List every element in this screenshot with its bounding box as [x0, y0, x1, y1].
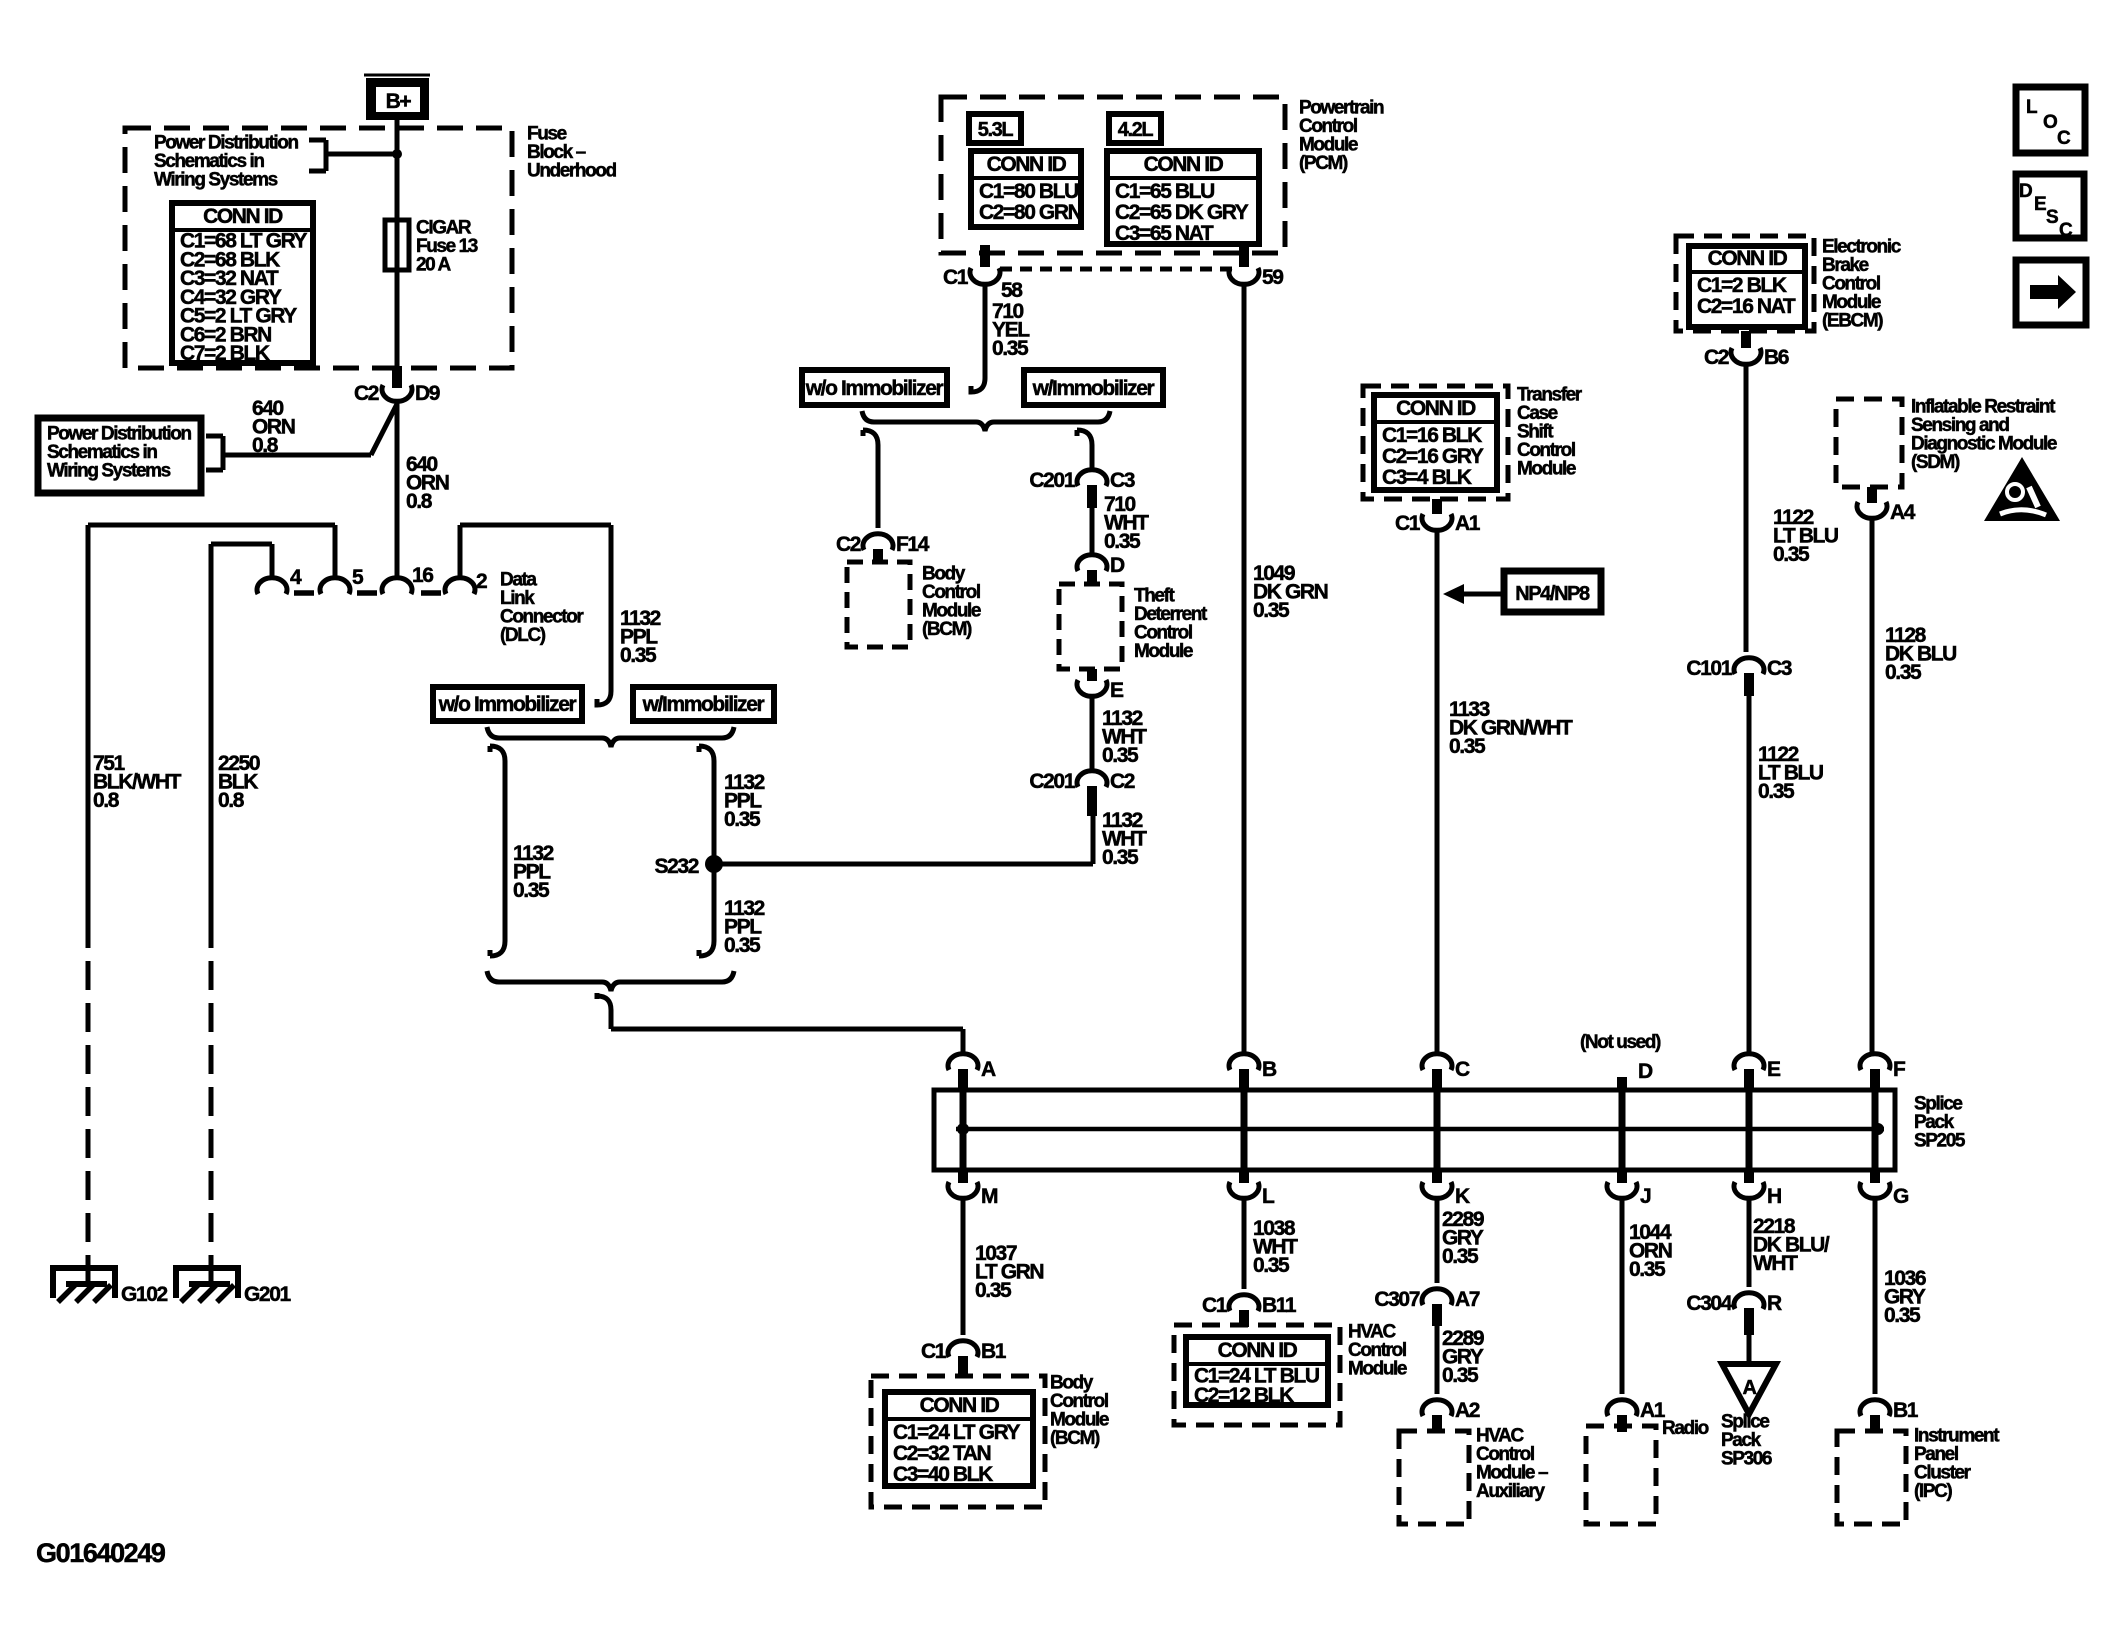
- splice S232: [655, 855, 723, 878]
- svg-text:16: 16: [412, 564, 433, 587]
- svg-text:C2: C2: [836, 533, 861, 556]
- label 1132 PPL 0.35 (right upper): [724, 771, 765, 831]
- label 1122 LT BLU 0.35 (upper): [1773, 506, 1838, 566]
- wire 640 ORN from D9 to DLC pin 16: [395, 400, 400, 579]
- svg-text:0.35: 0.35: [1102, 744, 1139, 767]
- label EBCM: [1822, 237, 1902, 332]
- svg-text:4.2L: 4.2L: [1118, 119, 1154, 141]
- svg-text:C2=80 GRN: C2=80 GRN: [979, 201, 1082, 224]
- label 59: [1262, 266, 1283, 289]
- svg-text:C: C: [1455, 1058, 1470, 1081]
- svg-text:C2: C2: [1704, 346, 1729, 369]
- wire 2289 GRY lower: [1435, 1326, 1440, 1394]
- label 1036 GRY 0.35: [1884, 1267, 1926, 1327]
- branch to BCM: [863, 430, 878, 528]
- svg-text:Wiring Systems: Wiring Systems: [154, 170, 278, 191]
- DLC pin numbers: [290, 564, 487, 593]
- label L (splice): [1262, 1185, 1275, 1208]
- label 2250 BLK 0.8: [218, 752, 260, 812]
- wire 2289 GRY upper: [1435, 1197, 1440, 1283]
- label M (splice): [981, 1185, 998, 1208]
- splice pack SP205 box: [934, 1090, 1895, 1170]
- svg-text:(BCM): (BCM): [1050, 1428, 1100, 1449]
- label A1: [1640, 1399, 1666, 1422]
- branch to theft deterrent: [1077, 430, 1092, 471]
- svg-text:B: B: [1262, 1058, 1277, 1081]
- label B (splice): [1262, 1058, 1277, 1081]
- connector B1 IPC: [1860, 1400, 1890, 1432]
- svg-text:D: D: [2019, 181, 2032, 202]
- svg-text:CONN ID: CONN ID: [1218, 1339, 1298, 1362]
- wire splice feed to SP205 A: [597, 993, 963, 1055]
- wire 1133 DK GRN/WHT to SP205 C: [1435, 529, 1440, 1055]
- svg-text:CONN ID: CONN ID: [1144, 153, 1224, 176]
- splice connector H: [1734, 1168, 1764, 1198]
- connector C307 A7: [1422, 1289, 1452, 1326]
- svg-text:0.35: 0.35: [1104, 530, 1141, 553]
- ground G201: [176, 1260, 291, 1306]
- label HVAC control module: [1348, 1322, 1407, 1380]
- connector C201 C3: [1077, 470, 1107, 508]
- label F (splice): [1893, 1058, 1906, 1081]
- legend box LOC: [2016, 87, 2085, 153]
- svg-text:C1: C1: [1202, 1294, 1228, 1317]
- svg-text:0.35: 0.35: [1449, 735, 1486, 758]
- svg-text:Wiring Systems: Wiring Systems: [47, 461, 171, 482]
- wire 1037 LT GRN: [961, 1197, 966, 1335]
- label PCM: [1299, 98, 1384, 175]
- svg-text:E: E: [2034, 194, 2046, 215]
- label SDM: [1911, 397, 2057, 474]
- powertrain control module dashed box: [941, 97, 1285, 253]
- HVAC control module dashed box: [1174, 1325, 1340, 1425]
- brace (PCM split): [862, 411, 1110, 431]
- label Data Link Connector DLC: [500, 570, 584, 647]
- label radio: [1662, 1418, 1709, 1439]
- splice connector L: [1229, 1168, 1259, 1198]
- svg-text:C2=16 NAT: C2=16 NAT: [1697, 295, 1796, 318]
- label CIGAR Fuse 13 20 A: [416, 218, 478, 276]
- labels C2 F14: [836, 533, 930, 556]
- svg-text:K: K: [1455, 1185, 1470, 1208]
- svg-text:D9: D9: [415, 382, 440, 405]
- svg-text:(SDM): (SDM): [1911, 452, 1960, 473]
- w/o Immobilizer box (DLC): [433, 687, 582, 721]
- svg-text:B1: B1: [1893, 1399, 1919, 1422]
- power distribution schematics box: [38, 418, 201, 493]
- svg-text:C1=24 LT GRY: C1=24 LT GRY: [893, 1421, 1021, 1444]
- svg-text:20 A: 20 A: [416, 255, 452, 276]
- wire 1132 WHT upper: [1090, 695, 1095, 772]
- svg-text:Module: Module: [1134, 641, 1193, 662]
- wire 710 WHT: [1090, 508, 1095, 556]
- wire DLC pin 5 to ground run 751: [88, 525, 335, 579]
- connector C2 B6: [1731, 331, 1761, 364]
- w/Immobilizer box (DLC): [633, 687, 774, 721]
- splice connector A: [948, 1054, 978, 1168]
- svg-text:WHT: WHT: [1753, 1252, 1798, 1275]
- svg-text:M: M: [981, 1185, 998, 1208]
- splice connector K: [1422, 1168, 1452, 1198]
- svg-text:C2=16 GRY: C2=16 GRY: [1382, 445, 1484, 468]
- DLC connector dashes: [294, 590, 441, 596]
- label H (splice): [1767, 1185, 1781, 1208]
- svg-text:0.35: 0.35: [975, 1279, 1012, 1302]
- brace bottom (DLC split): [487, 971, 734, 991]
- svg-text:5: 5: [352, 566, 364, 589]
- svg-text:B+: B+: [386, 90, 412, 113]
- svg-text:C101: C101: [1686, 657, 1732, 680]
- svg-text:0.35: 0.35: [1885, 661, 1922, 684]
- svg-text:SP205: SP205: [1914, 1131, 1966, 1152]
- wire end hook above brace (DLC): [597, 691, 611, 705]
- label 1049 DK GRN 0.35: [1253, 562, 1328, 622]
- figure number G01640249: [36, 1538, 166, 1568]
- arrow NP4/NP8: [1443, 584, 1504, 604]
- svg-text:C1=16 BLK: C1=16 BLK: [1382, 424, 1482, 447]
- label J (splice): [1640, 1185, 1651, 1208]
- svg-text:CONN ID: CONN ID: [920, 1394, 1000, 1417]
- svg-text:A: A: [981, 1058, 996, 1081]
- svg-text:C2: C2: [1110, 770, 1135, 793]
- svg-text:0.8: 0.8: [93, 789, 120, 812]
- body control module dashed box (top): [847, 562, 910, 647]
- svg-text:CONN ID: CONN ID: [1708, 247, 1788, 270]
- svg-text:G102: G102: [121, 1283, 167, 1306]
- tag 4.2L: [1109, 114, 1161, 143]
- label 1038 WHT 0.35: [1253, 1217, 1298, 1277]
- radio dashed box: [1586, 1426, 1656, 1524]
- w/Immobilizer box (PCM): [1024, 370, 1163, 405]
- CONN ID table PCM 4.2L: [1107, 151, 1259, 245]
- svg-text:J: J: [1640, 1185, 1651, 1208]
- CONN ID table BCM: [885, 1392, 1033, 1486]
- svg-text:(BCM): (BCM): [922, 619, 972, 640]
- label 2289 GRY 0.35 (lower): [1442, 1327, 1484, 1387]
- labels C1 B1: [921, 1340, 1007, 1363]
- svg-text:0.35: 0.35: [1442, 1245, 1479, 1268]
- svg-text:C307: C307: [1374, 1288, 1419, 1311]
- svg-text:2: 2: [476, 570, 487, 593]
- svg-text:G01640249: G01640249: [36, 1538, 166, 1568]
- label 710 YEL 0.35: [992, 300, 1030, 360]
- wire 1044 ORN: [1620, 1197, 1625, 1394]
- svg-text:C: C: [2057, 128, 2071, 149]
- svg-text:A7: A7: [1455, 1288, 1480, 1311]
- connector PCM C1 pin 58: [970, 245, 1000, 284]
- label splice pack SP306: [1721, 1412, 1772, 1470]
- svg-text:L: L: [2026, 97, 2038, 118]
- svg-text:0.35: 0.35: [724, 808, 761, 831]
- label K (splice): [1455, 1185, 1470, 1208]
- bracket wire to B+ feed: [309, 140, 394, 171]
- svg-text:0.8: 0.8: [406, 490, 433, 513]
- svg-text:w/o Immobilizer: w/o Immobilizer: [438, 693, 577, 716]
- wire 640 ORN branch diagonal: [223, 404, 397, 455]
- svg-text:A1: A1: [1455, 512, 1481, 535]
- label splice pack SP205: [1914, 1094, 1966, 1152]
- svg-text:0.35: 0.35: [1102, 846, 1139, 869]
- svg-text:Auxiliary: Auxiliary: [1476, 1481, 1545, 1502]
- bracket power distribution box: [206, 436, 223, 470]
- splice pack SP306 triangle: [1722, 1364, 1776, 1414]
- svg-text:(DLC): (DLC): [500, 625, 546, 646]
- svg-text:0.35: 0.35: [513, 879, 550, 902]
- labels C201 C3: [1029, 469, 1134, 492]
- svg-text:C1=2 BLK: C1=2 BLK: [1697, 274, 1787, 297]
- svg-text:F: F: [1893, 1058, 1906, 1081]
- connector PCM pin 59: [1229, 245, 1259, 284]
- svg-text:0.35: 0.35: [992, 337, 1029, 360]
- svg-text:C2: C2: [354, 382, 379, 405]
- splice connector C: [1422, 1054, 1452, 1168]
- svg-text:C3: C3: [1110, 469, 1135, 492]
- splice connector F: [1860, 1054, 1890, 1168]
- svg-text:C: C: [2059, 220, 2073, 241]
- svg-text:0.35: 0.35: [1773, 543, 1810, 566]
- labels C1 B11: [1202, 1294, 1297, 1317]
- svg-text:CONN ID: CONN ID: [1396, 397, 1476, 420]
- wire 1128 DK BLU to SP205 F: [1870, 517, 1875, 1055]
- connector C201 C2: [1077, 771, 1107, 816]
- svg-text:C1=65 BLU: C1=65 BLU: [1115, 180, 1214, 203]
- label HVAC control module auxiliary: [1476, 1426, 1548, 1503]
- svg-text:C2=32 TAN: C2=32 TAN: [893, 1442, 991, 1465]
- svg-text:A4: A4: [1890, 501, 1916, 524]
- svg-text:0.8: 0.8: [218, 789, 245, 812]
- svg-text:C3=40 BLK: C3=40 BLK: [893, 1463, 993, 1486]
- transfer case shift control module dashed box: [1363, 386, 1508, 499]
- svg-text:Radio: Radio: [1662, 1418, 1709, 1439]
- svg-text:R: R: [1767, 1292, 1782, 1315]
- svg-text:C1: C1: [943, 266, 969, 289]
- label 1128 DK BLU 0.35: [1885, 624, 1956, 684]
- svg-text:NP4/NP8: NP4/NP8: [1515, 583, 1590, 605]
- splice connector G: [1860, 1168, 1890, 1198]
- w/o Immobilizer box (PCM): [802, 370, 947, 405]
- connector C1 B11 HVAC: [1229, 1295, 1259, 1327]
- labels C307 A7: [1374, 1288, 1479, 1311]
- tag 5.3L: [969, 114, 1021, 143]
- labels C1 A1: [1395, 512, 1481, 535]
- labels C2 B6: [1704, 346, 1789, 369]
- svg-text:CONN ID: CONN ID: [203, 205, 283, 228]
- svg-text:G: G: [1893, 1185, 1909, 1208]
- airbag warning triangle: [1984, 457, 2060, 521]
- svg-text:B11: B11: [1262, 1294, 1297, 1317]
- label D: [1110, 554, 1125, 577]
- svg-text:D: D: [1110, 554, 1125, 577]
- label 2218 DK BLU/WHT: [1753, 1215, 1830, 1275]
- svg-text:C2=12 BLK: C2=12 BLK: [1194, 1384, 1294, 1407]
- wire 751 BLK/WHT to G102: [86, 525, 91, 1268]
- dashed connector line C1: [1000, 267, 1235, 272]
- label G (splice): [1893, 1185, 1909, 1208]
- connector A1 radio: [1607, 1400, 1637, 1432]
- svg-text:C304: C304: [1686, 1292, 1732, 1315]
- svg-text:H: H: [1767, 1185, 1781, 1208]
- svg-text:C3: C3: [1767, 657, 1792, 680]
- svg-text:C201: C201: [1029, 469, 1075, 492]
- battery feed B+: [364, 75, 430, 120]
- svg-text:w/o Immobilizer: w/o Immobilizer: [805, 377, 944, 400]
- labels C201 C2: [1029, 770, 1134, 793]
- splice pack bus bar: [956, 1123, 1884, 1135]
- wire DLC pin 2 1132 PPL: [460, 525, 611, 691]
- svg-text:59: 59: [1262, 266, 1283, 289]
- label A4: [1890, 501, 1916, 524]
- branch w/o immobilizer 1132 PPL: [490, 746, 505, 956]
- splice connector E: [1734, 1054, 1764, 1168]
- label 640 ORN 0.8 (lower): [406, 453, 449, 513]
- connector C1 B1 BCM: [948, 1341, 978, 1378]
- label E (splice): [1767, 1058, 1781, 1081]
- svg-text:0.35: 0.35: [1629, 1258, 1666, 1281]
- svg-text:0.35: 0.35: [1884, 1304, 1921, 1327]
- svg-text:C3=65 NAT: C3=65 NAT: [1115, 222, 1214, 245]
- svg-text:C2=65 DK GRY: C2=65 DK GRY: [1115, 201, 1249, 224]
- wire 1049 DK GRN pin 59 to SP205 B: [1242, 283, 1247, 1055]
- svg-text:w/Immobilizer: w/Immobilizer: [642, 693, 765, 716]
- fuse CIGAR Fuse 13 20 A: [385, 220, 409, 270]
- label 1132 PPL 0.35 (pin2 drop): [620, 607, 661, 667]
- svg-text:SP306: SP306: [1721, 1449, 1772, 1470]
- SDM dashed box: [1836, 399, 1902, 487]
- svg-text:S232: S232: [655, 855, 699, 878]
- label 1133 DK GRN/WHT 0.35: [1449, 698, 1573, 758]
- svg-text:0.35: 0.35: [1253, 599, 1290, 622]
- label 1132 WHT 0.35 (upper): [1102, 707, 1147, 767]
- svg-text:0.35: 0.35: [1758, 780, 1795, 803]
- label 710 WHT 0.35: [1104, 493, 1149, 553]
- label 751 BLK/WHT 0.8: [93, 752, 182, 812]
- svg-text:E: E: [1110, 679, 1124, 702]
- label (Not used): [1580, 1032, 1661, 1053]
- connector C2 F14: [863, 534, 893, 564]
- wire S232 to C201 C2: [714, 816, 1093, 864]
- labels C1 58: [943, 266, 1023, 302]
- svg-text:Module: Module: [1348, 1359, 1407, 1380]
- label BCM (bottom): [1050, 1373, 1109, 1450]
- svg-text:S: S: [2046, 207, 2058, 228]
- splice connector B: [1229, 1054, 1259, 1168]
- svg-text:G201: G201: [244, 1283, 291, 1306]
- junction on B+ feed: [392, 149, 402, 159]
- label 1132 PPL 0.35 (right lower): [724, 897, 765, 957]
- label BCM (top): [922, 564, 981, 641]
- wire 1038 WHT: [1242, 1197, 1247, 1289]
- svg-text:B1: B1: [981, 1340, 1007, 1363]
- svg-text:C1: C1: [1395, 512, 1421, 535]
- labels C101 C3: [1686, 657, 1791, 680]
- wire 2218 DK BLU/WHT: [1747, 1197, 1752, 1287]
- svg-text:C7=2 BLK: C7=2 BLK: [180, 342, 270, 365]
- svg-text:C1=80 BLU: C1=80 BLU: [979, 180, 1078, 203]
- CONN ID table HVAC: [1186, 1337, 1328, 1407]
- label theft deterrent control module: [1134, 586, 1208, 663]
- branch w/immobilizer 1132 PPL: [699, 746, 714, 956]
- brace top (DLC split): [487, 727, 734, 747]
- connector C2 D9: [382, 366, 412, 401]
- wire DLC pin 4 to ground run 2250: [211, 544, 272, 579]
- label 2289 GRY 0.35 (upper): [1442, 1208, 1484, 1268]
- label transfer case shift control module: [1517, 385, 1583, 480]
- svg-text:4: 4: [290, 566, 302, 589]
- wire 1036 GRY: [1873, 1197, 1878, 1394]
- legend box arrow: [2016, 260, 2086, 325]
- wire B+ to fuse block: [395, 120, 400, 386]
- svg-text:(EBCM): (EBCM): [1822, 311, 1883, 332]
- svg-text:0.35: 0.35: [620, 644, 657, 667]
- svg-text:F14: F14: [896, 533, 930, 556]
- label B1: [1893, 1399, 1919, 1422]
- labels C304 R: [1686, 1292, 1782, 1315]
- svg-text:w/Immobilizer: w/Immobilizer: [1032, 377, 1155, 400]
- svg-text:5.3L: 5.3L: [978, 119, 1014, 141]
- fuse block underhood dashed box: [125, 128, 512, 368]
- connector A2 HVAC aux: [1422, 1400, 1452, 1432]
- text power distribution schematics: [47, 424, 191, 482]
- svg-text:C3=4 BLK: C3=4 BLK: [1382, 466, 1472, 489]
- svg-text:B6: B6: [1764, 346, 1789, 369]
- label A2: [1455, 1399, 1480, 1422]
- svg-text:CONN ID: CONN ID: [987, 153, 1067, 176]
- tag NP4/NP8: [1504, 571, 1601, 612]
- svg-text:C201: C201: [1029, 770, 1075, 793]
- CONN ID table EBCM: [1689, 246, 1805, 327]
- HVAC control module auxiliary dashed box: [1399, 1431, 1469, 1524]
- connector A4 SDM: [1857, 487, 1887, 518]
- labels C2 D9: [354, 382, 440, 405]
- wire to SP306: [1747, 1335, 1752, 1364]
- connector E theft deterrent: [1077, 669, 1107, 696]
- DLC pin cups 4 5 16 2: [257, 578, 475, 594]
- label C (splice): [1455, 1058, 1470, 1081]
- legend box DESC: [2016, 174, 2084, 241]
- splice stub D (not used): [1617, 1077, 1627, 1168]
- wire 1122 LT BLU lower to SP205 E: [1747, 696, 1752, 1055]
- svg-text:58: 58: [1001, 279, 1023, 302]
- ground G102: [53, 1260, 167, 1306]
- connector C304 R: [1734, 1293, 1764, 1335]
- svg-text:0.35: 0.35: [1253, 1254, 1290, 1277]
- CONN ID table PCM 5.3L: [971, 151, 1082, 227]
- label 1037 LT GRN 0.35: [975, 1242, 1043, 1302]
- instrument panel cluster dashed box: [1837, 1431, 1906, 1524]
- label 1132 PPL 0.35 (left branch): [513, 842, 554, 902]
- svg-text:C1: C1: [921, 1340, 947, 1363]
- splice connector M: [948, 1168, 978, 1198]
- svg-text:A: A: [1742, 1377, 1756, 1399]
- splice connector J: [1607, 1168, 1637, 1198]
- svg-text:Module: Module: [1517, 459, 1576, 480]
- svg-text:O: O: [2043, 112, 2057, 133]
- connector D theft deterrent: [1077, 555, 1107, 586]
- label 1132 WHT 0.35 (lower): [1102, 809, 1147, 869]
- label instrument panel cluster: [1914, 1426, 2000, 1503]
- svg-text:D: D: [1638, 1060, 1653, 1083]
- wire 710 YEL from pin 58: [971, 283, 985, 392]
- label E: [1110, 679, 1124, 702]
- label Fuse Block Underhood: [527, 124, 617, 182]
- label A (splice): [981, 1058, 996, 1081]
- svg-text:0.35: 0.35: [724, 934, 761, 957]
- note power distribution schematics (fuse block): [154, 133, 298, 191]
- svg-text:(Not used): (Not used): [1580, 1032, 1661, 1053]
- wire 2250 BLK to G201: [209, 544, 214, 1268]
- svg-text:A2: A2: [1455, 1399, 1480, 1422]
- CONN ID table transfer case: [1374, 395, 1497, 490]
